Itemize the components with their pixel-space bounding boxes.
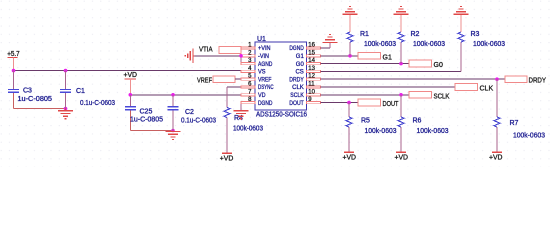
wire pin14 G0 net xyxy=(321,63,410,65)
capacitor C25 xyxy=(125,95,136,131)
svg-text:ADS1250-SOIC16: ADS1250-SOIC16 xyxy=(256,112,307,119)
svg-text:G0: G0 xyxy=(296,62,305,68)
svg-text:0.1u-C-0603: 0.1u-C-0603 xyxy=(181,118,216,125)
svg-text:CLK: CLK xyxy=(480,86,494,93)
svg-text:-VIN: -VIN xyxy=(258,54,269,60)
junction at R1 xyxy=(348,54,352,58)
svg-text:10: 10 xyxy=(308,89,315,95)
svg-text:C25: C25 xyxy=(140,109,153,116)
svg-text:100k-0603: 100k-0603 xyxy=(233,126,263,133)
offpage connector CLK xyxy=(455,84,478,91)
svg-text:G1: G1 xyxy=(296,54,305,60)
wire pin16 to ground xyxy=(321,47,331,49)
svg-text:C2: C2 xyxy=(185,109,194,116)
svg-text:DRDY: DRDY xyxy=(289,77,304,83)
junction at R6 xyxy=(399,93,403,97)
svg-text:G0: G0 xyxy=(434,62,443,69)
offpage connector DRDY xyxy=(505,76,527,83)
svg-text:CS: CS xyxy=(295,70,303,76)
svg-text:+VD: +VD xyxy=(395,154,409,161)
wire pin6 to R4 xyxy=(227,86,241,88)
wire pin10 SCLK net xyxy=(321,94,410,96)
capacitor C1 xyxy=(60,71,71,109)
svg-text:VD: VD xyxy=(258,93,266,99)
wire VREF to pin5 xyxy=(235,78,241,80)
svg-text:R7: R7 xyxy=(510,120,519,127)
svg-text:15: 15 xyxy=(308,50,315,56)
offpage connector SCLK xyxy=(409,91,432,98)
wire -VIN to ground xyxy=(195,55,242,57)
svg-text:VREF: VREF xyxy=(258,77,272,83)
junction at R7 xyxy=(495,77,499,81)
junction at R2 xyxy=(399,62,403,66)
resistor R1 xyxy=(347,15,353,56)
svg-text:DOUT: DOUT xyxy=(289,101,304,107)
svg-text:DRDY: DRDY xyxy=(529,78,547,85)
svg-text:1u-C-0805: 1u-C-0805 xyxy=(18,96,53,103)
power +VD below R6 xyxy=(395,152,409,161)
svg-text:1u-C-0805: 1u-C-0805 xyxy=(130,116,163,123)
svg-text:R3: R3 xyxy=(471,31,480,38)
resistor R6 xyxy=(398,95,404,153)
svg-text:100k-0603: 100k-0603 xyxy=(413,41,445,48)
svg-text:VTIA: VTIA xyxy=(199,47,213,54)
svg-text:100k-0603: 100k-0603 xyxy=(473,41,505,48)
wire VS rail xyxy=(14,70,242,72)
svg-text:+VD: +VD xyxy=(489,154,503,161)
svg-text:SCLK: SCLK xyxy=(434,93,450,100)
power +5.7 symbol xyxy=(7,51,20,71)
wire pin12 DRDY net xyxy=(321,78,506,80)
junction at R5 xyxy=(347,101,351,105)
svg-text:16: 16 xyxy=(308,43,315,49)
wire pin11 CLK net xyxy=(321,86,456,88)
svg-text:DGND: DGND xyxy=(258,101,273,107)
op-amp U1 ADS1250 IC body xyxy=(255,36,307,118)
offpage connector DOUT xyxy=(358,99,381,106)
svg-text:DSYNC: DSYNC xyxy=(258,85,274,91)
pin 12 stub xyxy=(307,78,321,80)
power +VD symbol (middle) xyxy=(124,72,138,95)
offpage connector G0 xyxy=(409,60,432,67)
svg-text:CLK: CLK xyxy=(292,85,304,91)
ground at pin16 (inverted) xyxy=(323,35,338,43)
wire pin9 DOUT net xyxy=(321,102,359,104)
svg-text:+VD: +VD xyxy=(124,72,138,79)
junction at +5.7/C3 tap xyxy=(12,69,16,73)
svg-text:R6: R6 xyxy=(413,118,422,125)
junction at C2 tap xyxy=(171,93,175,97)
junction at C1 tap xyxy=(64,69,68,73)
svg-text:DGND: DGND xyxy=(289,46,304,52)
resistor R5 xyxy=(346,103,352,153)
svg-text:VS: VS xyxy=(258,70,266,76)
ground at -VIN (sideways) xyxy=(185,49,194,64)
wire pin15 G1 net xyxy=(321,55,359,57)
wire pin2 to pin3 xyxy=(240,56,242,64)
svg-text:14: 14 xyxy=(308,58,315,64)
wire C25 to ground xyxy=(130,130,173,132)
capacitor C3 xyxy=(8,71,19,109)
svg-text:C1: C1 xyxy=(76,88,85,95)
pin 15 stub xyxy=(307,55,321,57)
power +VD below R5 xyxy=(343,152,357,161)
wire VD rail xyxy=(130,94,241,96)
svg-text:DOUT: DOUT xyxy=(383,101,400,108)
svg-text:U1: U1 xyxy=(257,36,266,43)
offpage connector VREF xyxy=(213,76,235,83)
junction at C2 bottom xyxy=(171,129,175,133)
svg-text:100k-0603: 100k-0603 xyxy=(513,133,545,140)
svg-text:VREF: VREF xyxy=(197,77,212,84)
pin 1 stub xyxy=(241,47,255,49)
pin 7 stub xyxy=(241,94,255,96)
resistor R2 xyxy=(398,15,404,64)
svg-text:100k-0603: 100k-0603 xyxy=(365,128,397,135)
resistor R4 xyxy=(224,108,230,154)
svg-text:13: 13 xyxy=(308,66,315,72)
ground above R1 (inverted) xyxy=(343,6,358,14)
wire C3 to ground xyxy=(14,108,66,110)
svg-text:AGND: AGND xyxy=(258,62,273,68)
svg-text:+VD: +VD xyxy=(220,155,234,162)
pin 14 stub xyxy=(307,63,321,65)
ground at pin8 DGND xyxy=(234,103,249,119)
svg-text:11: 11 xyxy=(308,82,315,88)
capacitor C2 xyxy=(168,95,179,131)
resistor R7 xyxy=(494,79,500,152)
svg-text:R1: R1 xyxy=(360,31,369,38)
svg-text:R5: R5 xyxy=(361,118,370,125)
junction at C25 tap xyxy=(129,93,133,97)
resistor R3 xyxy=(458,15,464,42)
offpage connector G1 xyxy=(358,52,381,59)
pin 4 stub xyxy=(241,70,255,72)
junction at C1 bottom xyxy=(64,107,68,111)
svg-text:SCLK: SCLK xyxy=(290,93,304,99)
svg-text:+VIN: +VIN xyxy=(258,46,271,52)
svg-text:+VD: +VD xyxy=(343,154,357,161)
pin 16 stub xyxy=(307,47,321,49)
pin 5 stub xyxy=(241,78,255,80)
pin 10 stub xyxy=(307,94,321,96)
pin 9 stub xyxy=(307,102,321,104)
power +VD below R4 xyxy=(220,153,234,162)
ground below C2 xyxy=(166,131,181,140)
svg-text:C3: C3 xyxy=(23,88,32,95)
offpage connector VTIA xyxy=(219,47,241,54)
svg-text:0.1u-C-0603: 0.1u-C-0603 xyxy=(80,100,115,107)
svg-text:100k-0603: 100k-0603 xyxy=(364,41,396,48)
pin 11 stub xyxy=(307,86,321,88)
pin 6 stub xyxy=(241,86,255,88)
pin 13 stub xyxy=(307,70,321,72)
svg-text:R2: R2 xyxy=(411,31,420,38)
power +VD below R7 xyxy=(489,152,503,161)
ground above R2 (inverted) xyxy=(394,6,409,14)
pin 3 stub xyxy=(241,63,255,65)
svg-text:G1: G1 xyxy=(383,54,392,61)
ground above R3 (inverted) xyxy=(454,6,469,14)
wire pin13 CS net to R3 xyxy=(321,70,462,72)
svg-text:12: 12 xyxy=(308,74,315,80)
pin 8 stub xyxy=(241,102,255,104)
pin 2 stub xyxy=(241,55,255,57)
junction at pin2 xyxy=(239,54,243,58)
svg-text:100k-0603: 100k-0603 xyxy=(417,128,449,135)
ground below C1 xyxy=(58,109,73,119)
